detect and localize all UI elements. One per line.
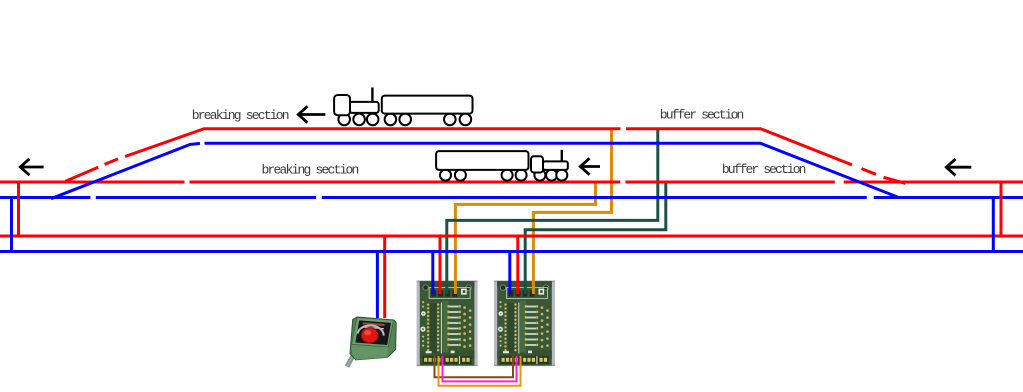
SW1 metal dial ring arc <box>358 325 384 335</box>
T2 engine hood <box>543 161 568 170</box>
wire blue to U1 <box>431 252 434 295</box>
wire orange to U2 from buffer section feed <box>533 129 611 295</box>
T2 wheels <box>440 170 451 181</box>
track: red rail siding with left bend <box>125 129 852 165</box>
wire blue to U2 <box>508 252 511 295</box>
T1 cab <box>334 95 350 115</box>
track: red crossover right end <box>1000 182 1003 238</box>
svg-text:breaking section: breaking section <box>192 108 289 123</box>
T1 engine hood <box>350 102 379 113</box>
track: red outer rail lower loop <box>0 235 1023 238</box>
track: red right turnout dashes <box>862 169 906 184</box>
track: red outer rail main line segments <box>0 181 1023 184</box>
SW1 label plate <box>355 320 391 345</box>
track: red crossover left end <box>17 182 20 238</box>
PCB module U1 <box>417 281 478 367</box>
wire brown U1-U2 interconnect <box>435 356 514 377</box>
track: blue rail siding <box>205 143 900 197</box>
wire blue to push button SW1 <box>376 252 379 319</box>
arrow direction marker left <box>20 159 43 175</box>
svg-text:buffer section: buffer section <box>660 108 744 123</box>
SW1 top face <box>352 318 394 348</box>
track: blue crossover left end <box>10 198 13 254</box>
T1 exhaust stack <box>371 88 373 104</box>
T1 trailer <box>382 96 473 114</box>
arrow direction marker main line center <box>580 158 600 174</box>
arrow direction marker top siding <box>298 106 325 122</box>
track: blue left turnout diagonal <box>51 143 200 198</box>
wire orange to U1 from left braking section feed <box>455 182 595 294</box>
arrow direction marker right <box>946 159 971 175</box>
svg-text:buffer section: buffer section <box>722 162 806 177</box>
SW1 body front face <box>352 344 389 360</box>
wire teal to U1 from buffer section right feed <box>447 129 658 295</box>
T2 cab <box>531 156 543 172</box>
SW1 label text lines <box>363 323 385 325</box>
truck T2 on main line <box>436 150 568 181</box>
wire magenta U1-U2 interconnect <box>443 356 517 381</box>
wire red to push button SW1 <box>383 236 386 318</box>
wire red to U1 <box>439 236 442 294</box>
wire teal to U2 from main right feed <box>525 182 666 294</box>
svg-text:breaking section: breaking section <box>262 163 359 178</box>
truck T1 on siding facing left <box>334 88 472 126</box>
wire orange U1-U2 interconnect <box>439 356 521 386</box>
push button SW1 <box>347 317 396 367</box>
PCB module U2 <box>494 281 555 367</box>
T2 trailer <box>436 151 528 170</box>
track: blue inner rail lower loop <box>0 250 1023 253</box>
T2 exhaust stack <box>561 150 563 162</box>
track: red left turnout dashes <box>65 159 118 181</box>
SW1 cable <box>347 352 356 367</box>
SW1 body outline <box>350 317 396 360</box>
track: blue inner rail main line segments <box>0 196 1023 199</box>
wire red to U2 <box>516 236 519 294</box>
track: blue crossover right end <box>992 198 995 254</box>
T1 wheels <box>338 114 350 126</box>
SW1 red button <box>361 328 378 343</box>
